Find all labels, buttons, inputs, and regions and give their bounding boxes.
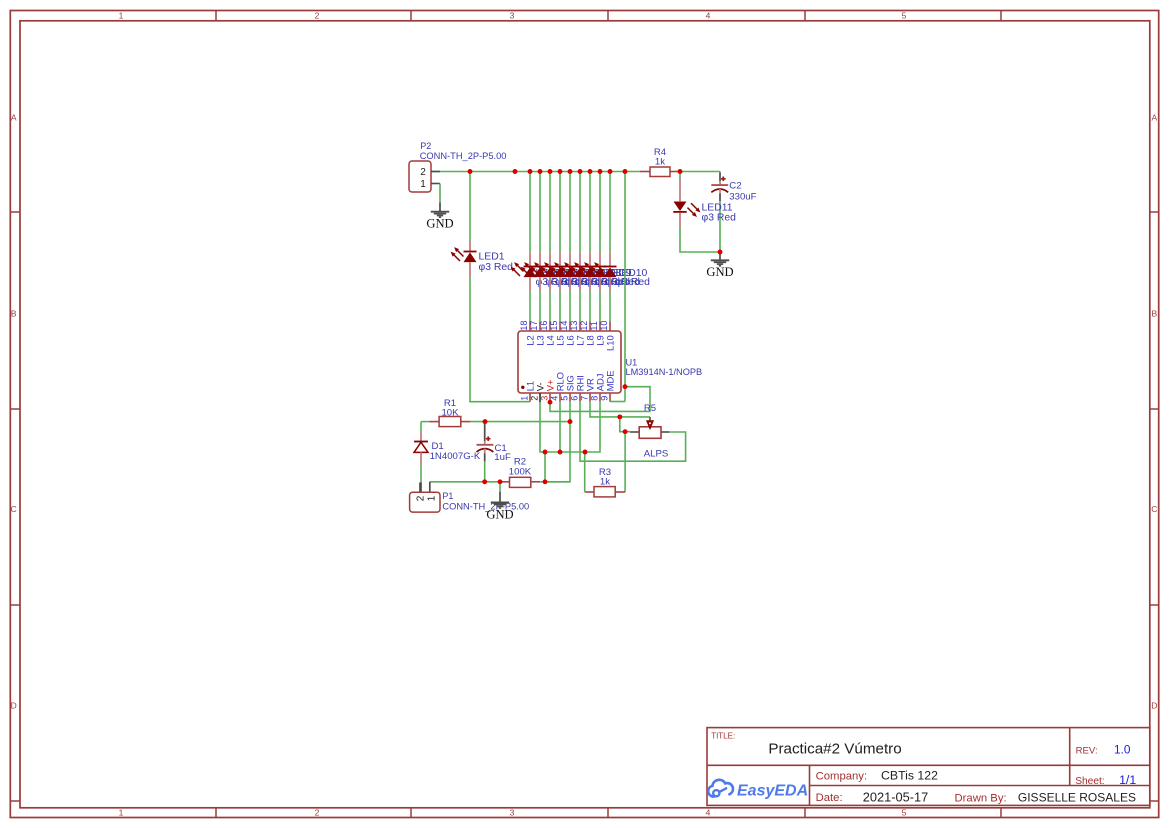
svg-text:4: 4 (706, 11, 711, 21)
EasyEDA logo (708, 780, 808, 800)
svg-text:L10: L10 (605, 335, 616, 351)
wire: V+ net (pin3 to rail via x650) (550, 387, 650, 412)
diode D1 1N4007G-K (414, 422, 481, 493)
svg-text:CBTis 122: CBTis 122 (881, 769, 938, 783)
svg-text:B: B (1151, 309, 1157, 319)
svg-text:1/1: 1/1 (1119, 773, 1136, 787)
svg-text:φ3 Red: φ3 Red (479, 262, 514, 273)
svg-text:Sheet:: Sheet: (1075, 776, 1104, 787)
svg-text:5: 5 (902, 808, 907, 818)
svg-text:2: 2 (416, 495, 427, 501)
svg-text:13: 13 (569, 321, 579, 331)
wire: SIG pin5 drop (545, 402, 570, 482)
svg-text:TITLE:: TITLE: (711, 732, 735, 741)
wire: P2 pin1 to ground (439, 184, 441, 203)
svg-text:GND: GND (486, 507, 513, 521)
svg-text:2021-05-17: 2021-05-17 (863, 789, 928, 804)
svg-text:CONN-TH_2P-P5.00: CONN-TH_2P-P5.00 (420, 151, 507, 161)
wire: V-/ADJ net (pin2-pin8 with taps) (540, 402, 600, 452)
svg-text:φ3 Red: φ3 Red (702, 212, 737, 223)
svg-text:4: 4 (706, 808, 711, 818)
svg-text:9: 9 (599, 396, 609, 401)
node: junction dots layer (468, 169, 723, 484)
LED1 phi3 Red (451, 241, 514, 277)
svg-text:LM3914N-1/NOPB: LM3914N-1/NOPB (626, 367, 703, 377)
svg-text:C2: C2 (729, 181, 741, 192)
svg-text:Date:: Date: (816, 792, 843, 804)
svg-text:11: 11 (589, 321, 599, 330)
wire: tap x545 (544, 452, 546, 482)
svg-text:B: B (11, 309, 17, 319)
svg-text:C: C (11, 504, 17, 514)
capacitor C2 330uF (711, 172, 756, 253)
svg-text:Drawn By:: Drawn By: (955, 793, 1007, 805)
wire: RLO pin4 drop (559, 402, 561, 452)
svg-text:10: 10 (599, 321, 609, 331)
wire: LED1 to U1 pin1 (470, 277, 530, 402)
svg-text:1: 1 (119, 808, 124, 818)
wire: P1 pin1 / C1 / GND / R2 (430, 481, 500, 483)
node: bottom junctions (0, 0, 1, 1)
LED7 phi3 Red (561, 252, 621, 321)
svg-text:2: 2 (420, 167, 426, 178)
resistor R2 100K (500, 457, 540, 488)
node: junctions below U1 (0, 0, 1, 1)
svg-text:2: 2 (315, 11, 320, 21)
capacitor C1 1uF (477, 422, 511, 482)
wire: tap down to R3 right (624, 432, 626, 492)
title block (707, 728, 1150, 806)
resistor R1 10K (421, 398, 470, 427)
resistor R4 1k (640, 147, 680, 177)
svg-text:5: 5 (902, 11, 907, 21)
LED6 phi3 Red (551, 252, 611, 321)
wire: R1 to SIG (470, 421, 570, 423)
svg-text:1k: 1k (655, 157, 665, 168)
wire: MDE pin9 jog (610, 401, 625, 403)
LED10 phi3 Red (591, 252, 651, 321)
wire: LED11/C2 to ground (680, 227, 720, 252)
svg-text:12: 12 (579, 321, 589, 331)
svg-text:GND: GND (706, 265, 733, 279)
svg-text:EasyEDA: EasyEDA (737, 782, 808, 799)
svg-text:3: 3 (510, 11, 515, 21)
svg-text:1: 1 (119, 11, 124, 21)
ground GND (P2) (426, 202, 453, 230)
ground GND (input) (486, 482, 513, 522)
wire: RHI pin6 to R5 right (580, 402, 686, 462)
svg-text:1: 1 (420, 179, 426, 190)
svg-text:5: 5 (559, 396, 569, 401)
svg-text:16: 16 (539, 321, 549, 331)
node: rail junctions (0, 0, 1, 1)
svg-text:6: 6 (569, 396, 579, 401)
svg-text:100K: 100K (509, 466, 532, 477)
svg-text:2: 2 (315, 808, 320, 818)
wire: R2 right to taps (540, 481, 570, 483)
svg-text:18: 18 (519, 321, 529, 331)
svg-text:15: 15 (549, 321, 559, 331)
LED9 phi3 Red (581, 252, 641, 321)
svg-text:D: D (1151, 701, 1157, 711)
svg-text:REV:: REV: (1076, 745, 1098, 756)
connector P1 CONN-TH_2P-P5.00 (410, 482, 530, 512)
resistor R3 1k (585, 452, 625, 497)
wire: rail to LED1 (469, 172, 471, 242)
LED3 phi3 Red (521, 252, 581, 321)
LED5 phi3 Red (541, 252, 601, 321)
svg-text:P1: P1 (442, 491, 453, 501)
op-amp U1 LM3914N-1/NOPB (518, 321, 702, 402)
svg-text:R5: R5 (644, 403, 656, 414)
svg-text:330uF: 330uF (729, 191, 756, 202)
svg-text:ALPS: ALPS (644, 449, 669, 460)
svg-text:1k: 1k (600, 476, 610, 487)
LED4 phi3 Red (531, 252, 591, 321)
svg-text:φ3 Red: φ3 Red (616, 277, 651, 288)
wire: rail to V+/MDE node (624, 172, 626, 402)
wire: +V top rail (431, 171, 640, 173)
svg-text:Company:: Company: (816, 771, 868, 783)
LED11 phi3 Red (673, 172, 736, 228)
svg-text:1: 1 (426, 495, 437, 501)
ground GND (C2) (706, 252, 733, 279)
svg-text:2: 2 (529, 396, 539, 401)
connector P2 CONN-TH_2P-P5.00 (409, 141, 506, 192)
LED8 phi3 Red (571, 252, 631, 321)
wire: rail drops to LED2-LED10 (530, 172, 610, 253)
svg-text:7: 7 (579, 396, 589, 401)
svg-text:3: 3 (539, 396, 549, 401)
svg-text:MDE: MDE (605, 370, 616, 391)
svg-text:3: 3 (510, 808, 515, 818)
svg-text:GISSELLE ROSALES: GISSELLE ROSALES (1018, 790, 1136, 804)
svg-text:Practica#2 Vúmetro: Practica#2 Vúmetro (768, 740, 901, 757)
wire: wiper tap jog (620, 417, 630, 432)
LED2 phi3 Red (511, 252, 571, 321)
svg-text:A: A (11, 113, 17, 123)
svg-text:14: 14 (559, 321, 569, 331)
svg-text:C: C (1151, 504, 1157, 514)
potentiometer R5 ALPS (630, 403, 669, 459)
svg-text:A: A (1151, 113, 1157, 123)
svg-text:1N4007G-K: 1N4007G-K (430, 451, 481, 462)
svg-text:10K: 10K (441, 408, 459, 419)
wire: VR pin7 to wiper (590, 402, 650, 417)
svg-text:D: D (11, 701, 17, 711)
svg-text:1.0: 1.0 (1114, 742, 1131, 756)
svg-text:8: 8 (589, 396, 599, 401)
svg-text:17: 17 (529, 321, 539, 331)
svg-text:GND: GND (426, 217, 453, 231)
svg-text:1: 1 (519, 396, 529, 401)
svg-text:1uF: 1uF (494, 452, 511, 463)
svg-text:P2: P2 (420, 141, 431, 151)
